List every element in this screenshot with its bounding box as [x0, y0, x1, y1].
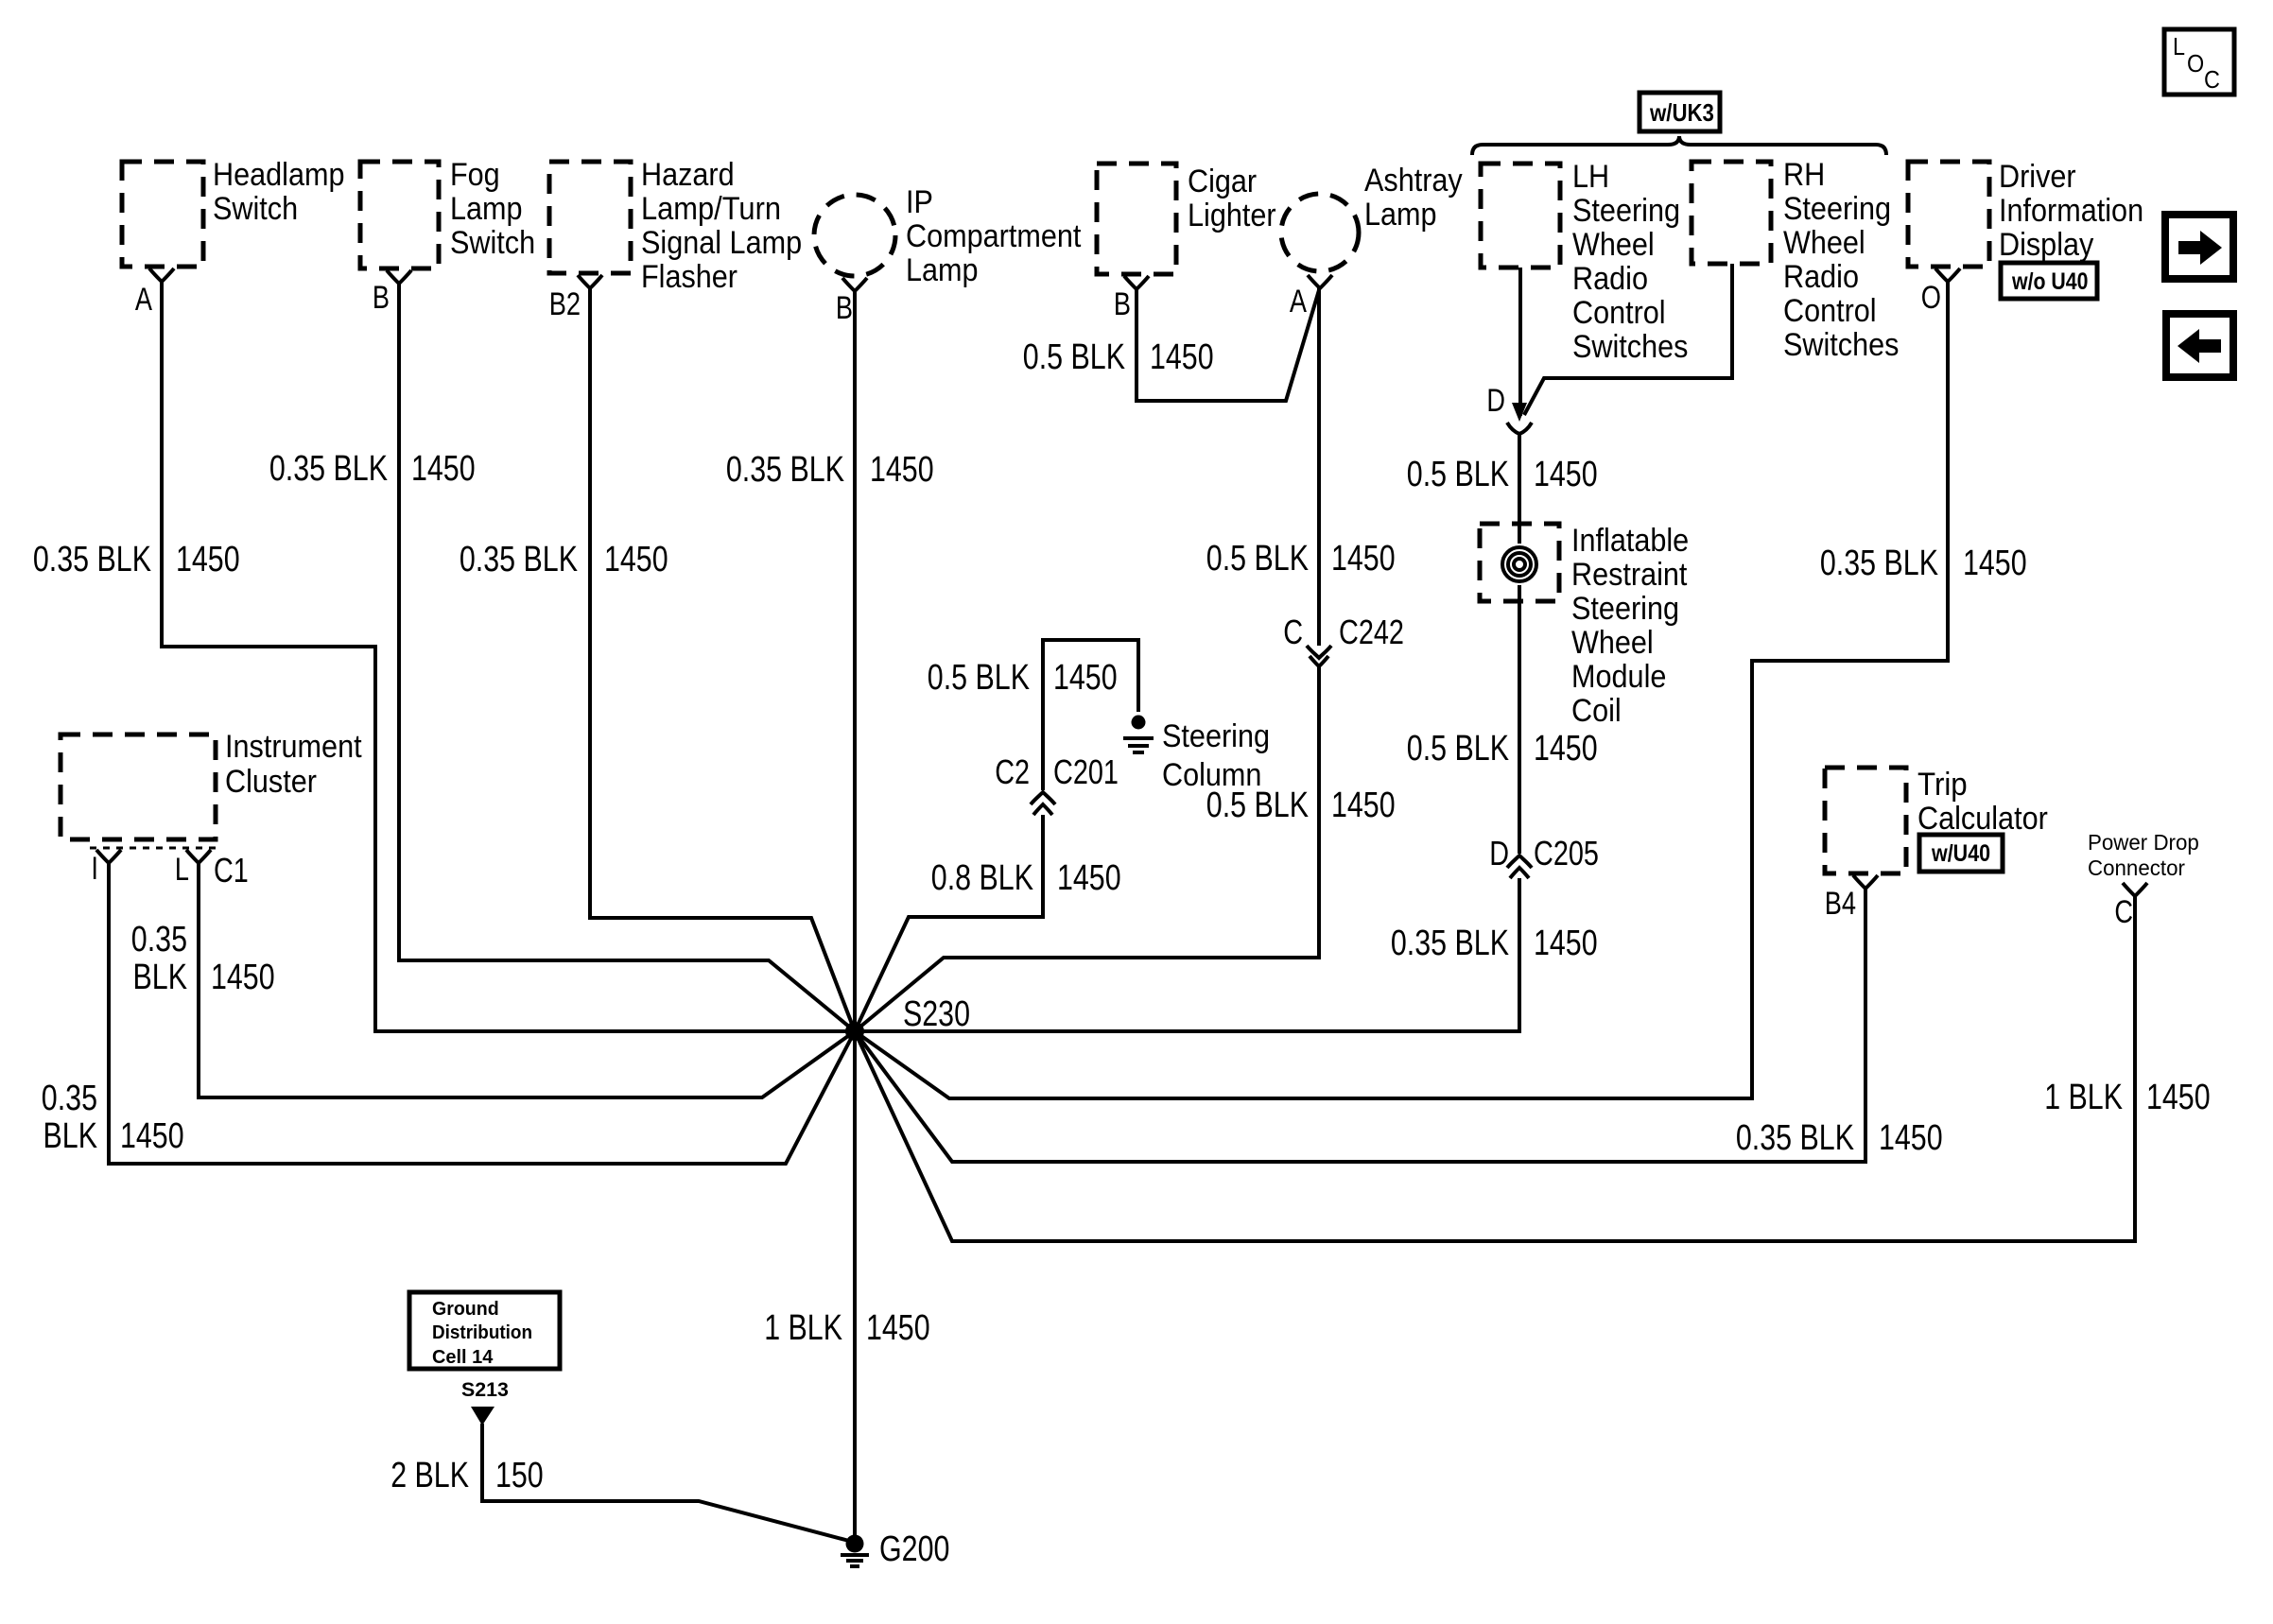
svg-text:O: O — [1921, 280, 1941, 316]
svg-text:Module: Module — [1571, 659, 1666, 695]
svg-text:Radio: Radio — [1783, 259, 1859, 295]
svg-text:1450: 1450 — [176, 540, 240, 579]
svg-text:S213: S213 — [461, 1379, 509, 1401]
svg-text:Display: Display — [1999, 227, 2093, 263]
svg-text:C: C — [2114, 894, 2133, 930]
svg-text:1450: 1450 — [211, 958, 275, 997]
svg-text:Power Drop: Power Drop — [2088, 830, 2199, 855]
svg-text:D: D — [1486, 383, 1505, 419]
svg-text:1450: 1450 — [1534, 729, 1598, 769]
label 0.5 BLK 1450 below coil — [1407, 729, 1598, 769]
svg-text:Cluster: Cluster — [225, 764, 317, 800]
svg-text:B: B — [373, 280, 390, 316]
svg-text:1450: 1450 — [1331, 539, 1396, 579]
svg-text:1450: 1450 — [1534, 455, 1598, 494]
power drop connector label — [2088, 830, 2199, 880]
svg-text:Switch: Switch — [450, 225, 535, 261]
svg-text:Switches: Switches — [1783, 327, 1899, 363]
svg-text:Switch: Switch — [213, 191, 298, 227]
ground distribution cell 14 box — [409, 1292, 560, 1369]
in-line connector C205 pin D — [1489, 834, 1599, 878]
wire RH switches joining LH wire at connector D — [1524, 264, 1732, 415]
svg-text:0.5 BLK: 0.5 BLK — [928, 658, 1030, 698]
svg-text:IP: IP — [906, 184, 933, 220]
svg-text:1450: 1450 — [866, 1308, 930, 1348]
svg-text:Distribution: Distribution — [432, 1322, 532, 1343]
wire below C201 to S230 — [855, 815, 1043, 1031]
svg-text:1450: 1450 — [604, 540, 668, 579]
svg-text:0.35: 0.35 — [42, 1079, 97, 1118]
svg-text:Wheel: Wheel — [1571, 625, 1654, 661]
svg-text:0.35 BLK: 0.35 BLK — [33, 540, 151, 579]
pin B of cigar lighter — [1114, 276, 1149, 322]
svg-text:B: B — [1114, 286, 1131, 322]
svg-text:Restraint: Restraint — [1571, 557, 1688, 593]
svg-text:1450: 1450 — [870, 450, 934, 490]
svg-text:Control: Control — [1572, 295, 1666, 331]
svg-text:Control: Control — [1783, 293, 1877, 329]
svg-text:Ashtray: Ashtray — [1364, 163, 1463, 199]
svg-text:Signal Lamp: Signal Lamp — [641, 225, 802, 261]
label 0.35 BLK 1450 on L wire — [131, 920, 275, 997]
svg-text:1450: 1450 — [1963, 544, 2027, 583]
svg-text:0.5 BLK: 0.5 BLK — [1206, 539, 1309, 579]
pin O of driver information display — [1921, 268, 1960, 316]
wire below C205 to S230 — [855, 878, 1519, 1031]
svg-text:1450: 1450 — [411, 449, 476, 489]
svg-text:Inflatable: Inflatable — [1571, 523, 1689, 559]
svg-text:0.5 BLK: 0.5 BLK — [1407, 729, 1509, 769]
pin B2 of hazard flasher — [549, 275, 602, 322]
label 0.8 BLK 1450 below C201 — [931, 858, 1121, 898]
label 1 BLK 1450 on C wire — [2044, 1078, 2210, 1117]
svg-text:Driver: Driver — [1999, 159, 2076, 195]
svg-text:0.35 BLK: 0.35 BLK — [1736, 1118, 1854, 1158]
svg-text:1450: 1450 — [1331, 786, 1396, 825]
svg-text:O: O — [2187, 49, 2204, 78]
svg-text:Flasher: Flasher — [641, 259, 737, 295]
svg-text:w/UK3: w/UK3 — [1649, 98, 1714, 127]
label 0.35 BLK 1450 below C205 — [1391, 924, 1598, 963]
left arrow navigation box — [2166, 314, 2233, 377]
wire A ashtray lamp down to C242 — [1317, 286, 1321, 646]
wire A headlamp switch to S230 — [162, 282, 855, 1031]
svg-text:S230: S230 — [903, 994, 970, 1034]
svg-text:Column: Column — [1162, 757, 1261, 793]
svg-text:Instrument: Instrument — [225, 729, 362, 765]
pin C of power drop connector — [2114, 883, 2147, 930]
cigar lighter box — [1097, 164, 1276, 274]
wire LH switches down to D arrow — [1518, 268, 1522, 416]
svg-text:LH: LH — [1572, 159, 1609, 195]
svg-text:0.35 BLK: 0.35 BLK — [1391, 924, 1509, 963]
svg-text:1450: 1450 — [1150, 337, 1214, 377]
svg-text:B2: B2 — [549, 286, 581, 322]
svg-text:B: B — [836, 290, 853, 326]
svg-text:I: I — [91, 851, 98, 887]
wire L instrument cluster to S230 — [199, 863, 855, 1097]
w/o U40 option box — [2001, 263, 2097, 299]
brace for w/UK3 over LH and RH switch boxes — [1472, 136, 1886, 155]
svg-text:A: A — [135, 282, 152, 318]
wire B fog lamp switch to S230 — [399, 284, 855, 1031]
svg-text:BLK: BLK — [133, 958, 188, 997]
svg-text:Lamp/Turn: Lamp/Turn — [641, 191, 781, 227]
svg-text:0.5 BLK: 0.5 BLK — [1023, 337, 1125, 377]
splice S230 — [845, 994, 970, 1041]
label 0.5 BLK 1450 above C201 — [928, 658, 1118, 698]
svg-text:Steering: Steering — [1572, 193, 1680, 229]
svg-text:L: L — [2173, 32, 2185, 60]
label 0.35 BLK 1450 on hazard wire — [460, 540, 668, 579]
driver information display box — [1908, 159, 2143, 267]
svg-text:Coil: Coil — [1571, 693, 1622, 729]
svg-text:w/o U40: w/o U40 — [2011, 268, 2088, 295]
svg-text:Connector: Connector — [2088, 855, 2185, 880]
svg-text:Wheel: Wheel — [1572, 227, 1655, 263]
svg-text:Cell 14: Cell 14 — [432, 1347, 494, 1368]
label 0.35 BLK 1450 on O wire — [1820, 544, 2027, 583]
svg-text:0.35 BLK: 0.35 BLK — [460, 540, 578, 579]
svg-text:0.35 BLK: 0.35 BLK — [1820, 544, 1938, 583]
pin I of instrument cluster — [91, 850, 121, 887]
svg-text:C: C — [2204, 65, 2220, 94]
svg-text:C242: C242 — [1339, 613, 1404, 651]
svg-text:150: 150 — [495, 1456, 544, 1495]
hazard lamp/turn signal lamp flasher box — [549, 157, 802, 295]
wire below C242 to S230 — [855, 666, 1319, 1031]
svg-text:0.8 BLK: 0.8 BLK — [931, 858, 1033, 898]
IP compartment lamp circle — [814, 184, 1082, 288]
svg-text:Wheel: Wheel — [1783, 225, 1865, 261]
LH steering wheel radio control switches box — [1481, 159, 1688, 365]
svg-text:Lamp: Lamp — [1364, 197, 1437, 233]
svg-text:Trip: Trip — [1917, 767, 1968, 803]
svg-text:0.35 BLK: 0.35 BLK — [726, 450, 844, 490]
headlamp switch box — [122, 157, 345, 267]
pin B4 of trip calculator — [1825, 875, 1878, 922]
wire B IP compartment lamp to S230 — [853, 291, 857, 1031]
svg-text:Fog: Fog — [450, 157, 500, 193]
wire below D arrow — [1518, 435, 1521, 524]
fog lamp switch box — [360, 157, 535, 268]
wire I instrument cluster to S230 — [109, 863, 855, 1164]
svg-text:C201: C201 — [1053, 752, 1119, 791]
svg-text:1450: 1450 — [1534, 924, 1598, 963]
svg-text:Hazard: Hazard — [641, 157, 735, 193]
svg-text:Headlamp: Headlamp — [213, 157, 345, 193]
inflatable restraint steering wheel module coil — [1480, 523, 1689, 729]
svg-text:Information: Information — [1999, 193, 2143, 229]
pin A of headlamp switch — [135, 268, 174, 318]
wire B2 hazard flasher to S230 — [590, 288, 855, 1031]
pin A of ashtray lamp — [1290, 275, 1332, 320]
svg-text:L: L — [175, 852, 189, 888]
svg-text:C1: C1 — [214, 851, 249, 890]
svg-text:1450: 1450 — [120, 1116, 184, 1156]
svg-text:2 BLK: 2 BLK — [390, 1456, 469, 1495]
wire from C201 up to steering column ground — [1043, 640, 1138, 790]
svg-text:C2: C2 — [995, 752, 1030, 791]
wire below coil — [1518, 601, 1521, 854]
svg-text:Lamp: Lamp — [450, 191, 523, 227]
wire O driver information display to S230 — [855, 282, 1948, 1098]
label 0.35 BLK 1450 on wire A — [33, 540, 240, 579]
wire C power drop connector to S230 — [855, 896, 2135, 1241]
label 2 BLK 150 on S213 wire — [390, 1456, 544, 1495]
svg-text:Steering: Steering — [1162, 718, 1270, 754]
LOC legend box — [2164, 29, 2234, 95]
svg-text:Steering: Steering — [1783, 191, 1891, 227]
label 0.5 BLK 1450 below C242 — [1206, 786, 1396, 825]
half arrow D into connector — [1486, 383, 1532, 434]
svg-text:1450: 1450 — [1053, 658, 1118, 698]
w/U40 option box — [1919, 835, 2003, 872]
wire S230 down to ground G200 — [853, 1031, 857, 1537]
svg-text:BLK: BLK — [43, 1116, 98, 1156]
svg-text:Lamp: Lamp — [906, 252, 979, 288]
svg-text:Radio: Radio — [1572, 261, 1648, 297]
right arrow navigation box — [2165, 215, 2233, 279]
wire B4 trip calculator to S230 — [855, 889, 1865, 1162]
svg-text:G200: G200 — [879, 1529, 949, 1569]
ashtray lamp circle — [1281, 163, 1463, 271]
svg-text:RH: RH — [1783, 157, 1825, 193]
label 1 BLK 1450 on ground wire — [764, 1308, 929, 1348]
svg-text:1450: 1450 — [2146, 1078, 2211, 1117]
svg-text:Lighter: Lighter — [1188, 198, 1276, 233]
steering column ground symbol — [1123, 716, 1270, 794]
svg-text:B4: B4 — [1825, 886, 1856, 922]
splice S213 from ground distribution — [461, 1379, 509, 1425]
svg-text:0.35: 0.35 — [131, 920, 187, 959]
RH steering wheel radio control switches box — [1692, 157, 1899, 363]
svg-text:A: A — [1290, 284, 1307, 320]
svg-text:0.5 BLK: 0.5 BLK — [1407, 455, 1509, 494]
svg-text:Cigar: Cigar — [1188, 164, 1257, 199]
svg-text:0.35 BLK: 0.35 BLK — [269, 449, 388, 489]
label 0.35 BLK 1450 on B4 wire — [1736, 1118, 1943, 1158]
connector C1 face dotted line — [90, 847, 217, 850]
svg-text:C205: C205 — [1534, 834, 1599, 872]
label 0.5 BLK 1450 above coil — [1407, 455, 1598, 494]
w/UK3 option box — [1640, 93, 1720, 131]
ground G200 — [841, 1529, 949, 1569]
instrument cluster box — [61, 729, 362, 839]
svg-text:1 BLK: 1 BLK — [764, 1308, 842, 1348]
svg-text:Steering: Steering — [1571, 591, 1679, 627]
svg-text:1450: 1450 — [1879, 1118, 1943, 1158]
label 0.5 BLK 1450 on cigar wire — [1023, 337, 1214, 377]
svg-text:Ground: Ground — [432, 1299, 499, 1320]
svg-text:1 BLK: 1 BLK — [2044, 1078, 2123, 1117]
svg-text:Calculator: Calculator — [1917, 801, 2048, 837]
in-line connector C201 pin C2 — [995, 752, 1119, 815]
pin L of instrument cluster and connector C1 — [175, 850, 249, 890]
svg-text:C: C — [1283, 613, 1303, 651]
wire B cigar lighter joining ashtray pin A — [1136, 289, 1319, 401]
svg-text:w/U40: w/U40 — [1931, 840, 1990, 867]
label 0.35 BLK 1450 on fog wire — [269, 449, 476, 489]
in-line connector C242 pin C — [1283, 613, 1404, 666]
svg-text:Compartment: Compartment — [906, 218, 1082, 254]
pin B of IP compartment lamp — [836, 278, 867, 326]
label 0.35 BLK 1450 on I wire — [42, 1079, 184, 1156]
svg-text:Switches: Switches — [1572, 329, 1688, 365]
svg-text:1450: 1450 — [1057, 858, 1121, 898]
label 0.35 BLK 1450 on IP lamp wire — [726, 450, 934, 490]
pin B of fog lamp switch — [373, 270, 411, 316]
wire S213 to G200 — [482, 1424, 849, 1541]
label 0.5 BLK 1450 above C242 — [1206, 539, 1396, 579]
trip calculator box — [1825, 767, 2048, 873]
